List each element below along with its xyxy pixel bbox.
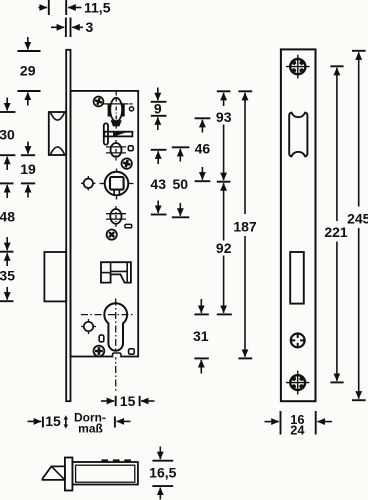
faceplate (bottom view) [65,458,73,491]
lock case body [71,91,139,357]
svg-text:35: 35 [0,268,15,284]
small slot R4 [129,349,135,354]
dim 9 [151,88,167,131]
dim 48 [0,183,15,251]
svg-text:30: 30 [0,127,15,143]
dim 16/24 [265,411,333,437]
dim 30 [0,98,15,171]
euro profile cylinder hole [81,299,134,392]
notch in case bottom edge [113,353,122,358]
svg-text:43: 43 [150,176,166,192]
faceplate front rectangle [281,49,316,401]
svg-text:31: 31 [193,328,209,344]
dim 187 [233,91,257,358]
svg-text:50: 50 [173,176,189,192]
small pin circle right of latch follower [129,107,133,111]
dim 3 [51,18,94,38]
latch opening in faceplate [289,113,307,157]
deadbolt (protruding, side view) [44,252,66,301]
deadbolt mechanism block [101,262,131,282]
dim 16,5 [149,447,176,500]
latch follower assembly (oval with side bars) [104,92,135,129]
latch head (beveled) [43,466,65,480]
dim 221 [324,66,348,382]
small slot R1 [128,146,133,151]
svg-text:92: 92 [216,240,232,256]
svg-text:3: 3 [86,19,94,35]
dim 11,5 [39,0,111,15]
svg-text:29: 29 [20,63,36,79]
svg-text:245: 245 [347,211,368,227]
dim 245 [347,51,368,400]
svg-text:15: 15 [45,413,61,429]
svg-text:48: 48 [0,208,15,224]
bottom screw [286,371,310,395]
deadbolt slot in faceplate [290,252,304,304]
screw S1 top-left [92,95,104,107]
screw S3 [104,227,118,241]
oval hole O2 [106,140,126,161]
T-shaped lever [104,123,133,144]
svg-text:93: 93 [216,109,232,125]
svg-text:221: 221 [324,224,348,240]
oval hole O3 [106,206,126,227]
svg-text:24: 24 [290,422,305,437]
faceplate top screw [286,55,310,79]
dim 15 + Dornmass row [28,411,131,436]
svg-text:46: 46 [195,141,211,157]
square spindle hub [100,169,134,200]
svg-text:maß: maß [78,422,103,436]
middle fixing screw (4-lobe) [291,334,305,348]
small hole left of cylinder [81,319,96,334]
dim 31 [193,299,209,374]
small hole left of hub [81,176,96,191]
dim 43 [150,150,166,215]
dim 15 (cylinder to case rear) [101,393,155,409]
dim 93 / 92 chain [216,91,232,314]
svg-text:15: 15 [120,393,136,409]
svg-text:187: 187 [233,219,257,235]
screw S2 [120,157,133,170]
dim 35 [0,253,15,301]
latch bolt (protruding, side view) [49,112,66,155]
svg-text:9: 9 [154,101,162,117]
faceplate (front plate, side view) [66,50,70,401]
svg-text:16,5: 16,5 [149,465,176,481]
screw S4 [94,346,105,357]
svg-text:19: 19 [20,161,36,177]
small slot R3 [99,335,104,342]
dim 19 [20,142,36,198]
dim 46 [195,118,211,181]
small slot R2 [125,224,132,227]
dim 50 [172,147,190,217]
dim 29 [17,37,40,106]
lock case (bottom view) [72,459,137,484]
svg-text:11,5: 11,5 [84,0,111,15]
